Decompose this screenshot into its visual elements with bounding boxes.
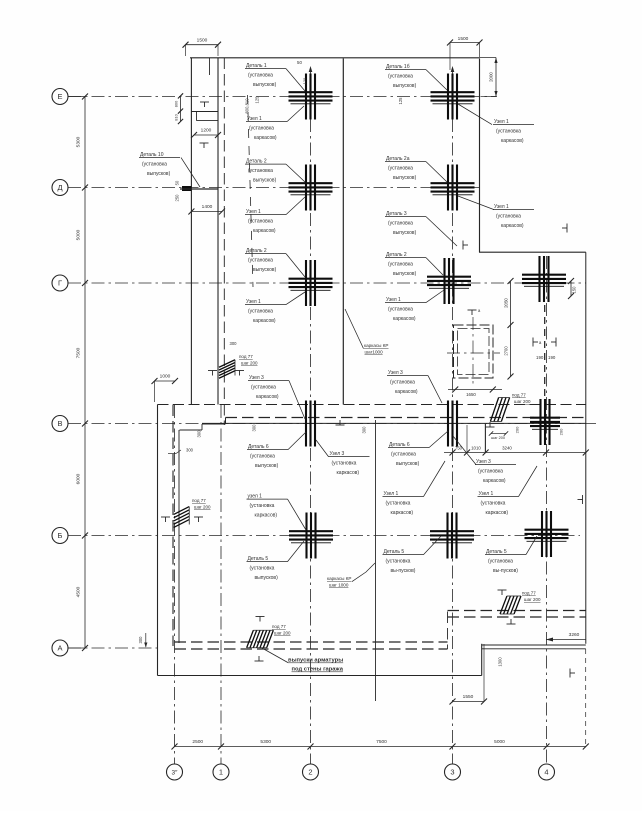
svg-text:1550: 1550 bbox=[463, 694, 474, 700]
svg-text:выпусков): выпусков) bbox=[255, 463, 279, 469]
rebar outlet hatch d bbox=[490, 398, 509, 422]
label Деталь 2 (3-Г) bbox=[385, 252, 443, 277]
svg-text:3: 3 bbox=[450, 768, 454, 777]
wall strip hidden face dashed bbox=[223, 58, 225, 426]
axis circle А bbox=[52, 640, 68, 656]
column rebar cross 3-Б bbox=[430, 513, 474, 559]
column rebar cross 3-В bbox=[448, 401, 457, 447]
column rebar cross 4-Г bbox=[522, 256, 566, 302]
svg-text:под 77: под 77 bbox=[522, 591, 536, 596]
svg-text:3260: 3260 bbox=[569, 632, 580, 638]
svg-text:(установка: (установка bbox=[251, 385, 276, 391]
svg-text:под 77: под 77 bbox=[192, 498, 206, 503]
svg-text:(установка: (установка bbox=[496, 214, 521, 220]
garage bottom right outer wall 2 bbox=[482, 648, 586, 650]
pit centerline horizontal bbox=[447, 352, 500, 354]
dim 1500 top axis3 bbox=[447, 36, 483, 70]
svg-text:каркасов): каркасов) bbox=[253, 228, 276, 234]
svg-text:Деталь 6: Деталь 6 bbox=[389, 442, 410, 448]
svg-text:(установка: (установка bbox=[488, 559, 513, 565]
svg-text:300: 300 bbox=[362, 426, 367, 434]
svg-text:В: В bbox=[57, 419, 62, 428]
label Деталь 2 (2-Д) bbox=[245, 159, 305, 184]
svg-text:800,810: 800,810 bbox=[245, 98, 250, 114]
svg-text:2700: 2700 bbox=[504, 346, 509, 356]
section mark t1 bbox=[200, 102, 209, 107]
section mark t5 bbox=[578, 495, 583, 504]
label Деталь 10 bbox=[139, 152, 200, 187]
label Деталь 3 bbox=[385, 211, 457, 246]
svg-text:каркасов): каркасов) bbox=[256, 394, 279, 400]
svg-text:каркасов): каркасов) bbox=[486, 510, 509, 516]
label каркасы КР шаг 1000 lower bbox=[327, 563, 375, 588]
label Узел 3 (2-В) bbox=[248, 375, 305, 419]
row V inner step line bbox=[180, 429, 203, 431]
svg-text:под 77: под 77 bbox=[512, 393, 526, 398]
svg-text:(установка: (установка bbox=[388, 74, 413, 80]
svg-text:Узел 3: Узел 3 bbox=[388, 370, 403, 376]
label Узел 3 (3-В) above bbox=[387, 370, 442, 403]
svg-text:шаг 200: шаг 200 bbox=[194, 505, 211, 510]
hidden edge line x248 bbox=[248, 95, 254, 287]
label каркасы КР шаг1000 upper bbox=[345, 309, 389, 355]
svg-text:каркасов): каркасов) bbox=[483, 478, 506, 484]
svg-text:1200: 1200 bbox=[201, 128, 212, 134]
svg-text:(установка: (установка bbox=[478, 469, 503, 475]
garage left outer wall bbox=[157, 405, 159, 676]
svg-text:выпусков): выпусков) bbox=[396, 461, 420, 467]
svg-text:Узел 3: Узел 3 bbox=[330, 451, 345, 457]
arrow top of axis 3 bbox=[451, 66, 455, 72]
bottom dimension chain bbox=[172, 739, 589, 750]
row V wall step bbox=[225, 418, 227, 425]
svg-text:Деталь 6: Деталь 6 bbox=[248, 444, 269, 450]
dim 1650 pit bbox=[448, 387, 502, 398]
label Узел 1 (3-Г) bbox=[385, 290, 444, 322]
axis circle 2 bbox=[303, 764, 319, 780]
svg-text:каркасов): каркасов) bbox=[501, 138, 524, 144]
rebar outlet hatch e bbox=[500, 596, 521, 614]
dim 300 near A left bbox=[145, 633, 147, 647]
axis line Е bbox=[68, 96, 497, 98]
svg-text:под 77: под 77 bbox=[272, 624, 286, 629]
svg-text:2: 2 bbox=[308, 768, 312, 777]
svg-text:выпусков): выпусков) bbox=[147, 171, 171, 177]
svg-text:300: 300 bbox=[197, 430, 202, 438]
pit rectangle inner bbox=[458, 329, 490, 375]
svg-text:200: 200 bbox=[559, 428, 564, 435]
svg-text:шаг 1000: шаг 1000 bbox=[329, 583, 349, 588]
axis line 1 bbox=[220, 405, 222, 764]
svg-text:(установка: (установка bbox=[391, 452, 416, 458]
svg-text:Узел 1: Узел 1 bbox=[494, 204, 509, 210]
label Деталь 6 (3-В) bbox=[388, 431, 448, 467]
svg-text:каркасов): каркасов) bbox=[255, 513, 278, 519]
column rebar cross 2-Б bbox=[289, 513, 333, 559]
section mark t20 bbox=[551, 338, 556, 347]
label Узел 3 (3-В) bbox=[453, 436, 516, 484]
svg-text:200: 200 bbox=[515, 426, 520, 433]
column rebar cross 2-Д bbox=[289, 165, 333, 211]
svg-text:3240: 3240 bbox=[502, 446, 512, 451]
rebar outlet hatch a bbox=[219, 360, 235, 378]
svg-text:Узел 1: Узел 1 bbox=[246, 299, 261, 305]
svg-text:(установка: (установка bbox=[248, 168, 273, 174]
label Узел 3 (2-В) right bbox=[316, 440, 370, 476]
svg-text:каркасы КР: каркасы КР bbox=[364, 343, 389, 348]
garage bottom inner dashed wall pair bbox=[175, 641, 448, 643]
svg-text:Деталь 2: Деталь 2 bbox=[386, 252, 407, 258]
section mark t19 bbox=[533, 338, 538, 347]
upper block step wall bbox=[479, 251, 586, 253]
section mark t6 bbox=[570, 669, 575, 678]
dim 3260 right bbox=[546, 632, 586, 642]
column rebar cross 3-Е bbox=[431, 74, 475, 120]
svg-text:Узел 1: Узел 1 bbox=[479, 491, 494, 497]
svg-text:(установка: (установка bbox=[250, 503, 275, 509]
label Деталь 5 (3-Б) bbox=[383, 536, 442, 574]
svg-text:Деталь 5: Деталь 5 bbox=[384, 549, 405, 555]
svg-text:выпусков): выпусков) bbox=[253, 267, 277, 273]
svg-text:(установка: (установка bbox=[332, 461, 357, 467]
axis 4 heavy dashed segment bbox=[544, 305, 546, 400]
label Деталь 6 (2-В) bbox=[247, 432, 306, 469]
svg-text:125: 125 bbox=[302, 77, 307, 84]
svg-text:выпусков): выпусков) bbox=[253, 178, 277, 184]
svg-text:шаг 200: шаг 200 bbox=[514, 399, 531, 404]
wall strip inner stub bbox=[209, 58, 211, 75]
axis line Г bbox=[68, 282, 586, 284]
svg-text:2050: 2050 bbox=[504, 298, 509, 308]
svg-text:вы-пусков): вы-пусков) bbox=[493, 568, 518, 574]
svg-text:А: А bbox=[57, 644, 62, 653]
dim 150 right wall bbox=[568, 278, 577, 299]
column rebar cross 2-В bbox=[306, 401, 315, 447]
svg-text:3″: 3″ bbox=[172, 770, 179, 777]
svg-text:(установка: (установка bbox=[388, 262, 413, 268]
svg-text:(установка: (установка bbox=[386, 501, 411, 507]
label Узел 1 (2-Г) bbox=[245, 292, 305, 324]
upper block right wall upper bbox=[479, 59, 481, 253]
label Узел 1 (3-Б) bbox=[383, 461, 446, 516]
svg-text:каркасов): каркасов) bbox=[395, 389, 418, 395]
garage bottom outer step bbox=[481, 644, 483, 676]
row Д stub line bbox=[180, 188, 218, 190]
svg-text:300: 300 bbox=[138, 636, 143, 644]
axis line Д bbox=[68, 187, 480, 189]
axis line 1' bbox=[174, 405, 176, 764]
axis circle 1 bbox=[213, 764, 229, 780]
svg-text:4: 4 bbox=[544, 768, 548, 777]
column rebar cross 4-Б bbox=[525, 511, 569, 557]
wall strip notch step bbox=[196, 112, 198, 121]
svg-text:выпусков): выпусков) bbox=[393, 175, 417, 181]
svg-text:4500: 4500 bbox=[76, 586, 82, 597]
label Узел 1 (3-Д) right bbox=[458, 196, 534, 229]
svg-text:250: 250 bbox=[175, 194, 180, 202]
svg-text:2000: 2000 bbox=[489, 72, 494, 82]
dim 1550 bottom bbox=[450, 694, 488, 705]
svg-text:выпусков): выпусков) bbox=[255, 575, 279, 581]
svg-text:1300: 1300 bbox=[498, 657, 503, 667]
wall strip top-left outer line bbox=[190, 58, 192, 405]
label Узел 1 (2-Д) bbox=[245, 197, 305, 234]
extension right wall to dim bbox=[585, 649, 587, 747]
axis line 2 bbox=[310, 72, 312, 764]
svg-text:Узел 1: Узел 1 bbox=[247, 116, 262, 122]
svg-text:Деталь 1: Деталь 1 bbox=[246, 63, 267, 69]
svg-text:Д: Д bbox=[57, 183, 62, 192]
axis line А bbox=[68, 647, 160, 649]
svg-text:(установка: (установка bbox=[388, 221, 413, 227]
svg-text:Деталь 2: Деталь 2 bbox=[246, 159, 267, 165]
dim 2050 pit right bbox=[504, 278, 514, 380]
section mark t17 bbox=[336, 420, 345, 425]
svg-text:Деталь 2а: Деталь 2а bbox=[386, 156, 410, 162]
svg-text:каркасов): каркасов) bbox=[337, 470, 360, 476]
label Узел 1 (2-Е) bbox=[246, 106, 304, 141]
svg-text:50: 50 bbox=[297, 60, 302, 65]
section mark t7 bbox=[208, 371, 217, 376]
svg-text:5300: 5300 bbox=[260, 739, 271, 745]
svg-text:5000: 5000 bbox=[76, 229, 82, 240]
svg-text:(установка: (установка bbox=[250, 566, 275, 572]
svg-text:вы-пусков): вы-пусков) bbox=[391, 568, 416, 574]
axis line 4 bbox=[546, 256, 548, 764]
svg-text:1500: 1500 bbox=[197, 38, 208, 44]
axis circle 4 bbox=[539, 764, 555, 780]
axis circle Б bbox=[52, 528, 68, 544]
svg-text:125: 125 bbox=[255, 96, 260, 104]
label Узел 1 (4-Б) bbox=[478, 466, 538, 516]
svg-text:190: 190 bbox=[548, 355, 556, 360]
svg-text:Узел 3: Узел 3 bbox=[249, 375, 264, 381]
label Узел 1 (3-Е) right bbox=[458, 104, 534, 144]
extension wall corner to dim bbox=[484, 424, 486, 452]
garage bottom outer wall bbox=[158, 675, 482, 677]
bottom right dashed wall 2 bbox=[448, 616, 586, 618]
svg-text:Узел 1: Узел 1 bbox=[494, 119, 509, 125]
section mark t15 bbox=[498, 590, 507, 595]
dim 2000 right of axis3 top bbox=[480, 58, 498, 97]
svg-text:7500: 7500 bbox=[76, 347, 82, 358]
svg-text:1650: 1650 bbox=[466, 392, 476, 397]
axis circle Г bbox=[52, 275, 68, 291]
svg-text:(установка: (установка bbox=[250, 454, 275, 460]
svg-text:шаг 200: шаг 200 bbox=[491, 436, 505, 440]
column rebar cross 3-Г bbox=[427, 258, 471, 304]
right outer wall bbox=[585, 252, 587, 644]
svg-text:5300: 5300 bbox=[76, 136, 82, 147]
svg-text:Деталь 3: Деталь 3 bbox=[386, 211, 407, 217]
column rebar cross 2-Г bbox=[289, 260, 333, 306]
axis circle Е bbox=[52, 89, 68, 105]
section mark t11 bbox=[255, 656, 264, 661]
svg-text:1000: 1000 bbox=[160, 374, 171, 380]
svg-text:выпусков): выпусков) bbox=[393, 83, 417, 89]
svg-text:шаг 200: шаг 200 bbox=[524, 597, 541, 602]
dim chain 750 1010 3240 bbox=[444, 424, 589, 456]
svg-text:300: 300 bbox=[186, 448, 194, 453]
svg-text:Деталь 2: Деталь 2 bbox=[246, 248, 267, 254]
axis line Б bbox=[68, 535, 580, 537]
svg-text:(установка: (установка bbox=[249, 126, 274, 132]
svg-text:под 77: под 77 bbox=[239, 354, 253, 359]
svg-text:(установка: (установка bbox=[386, 559, 411, 565]
section mark t18 bbox=[468, 310, 477, 315]
section mark t2 bbox=[200, 143, 209, 148]
top wall continuous bbox=[190, 57, 480, 59]
label Деталь 1б (3-Е) bbox=[385, 64, 447, 90]
section mark t12 bbox=[256, 617, 265, 622]
row V hidden wall line bbox=[158, 404, 587, 406]
svg-text:7500: 7500 bbox=[376, 739, 387, 745]
svg-text:Б: Б bbox=[58, 531, 63, 540]
upper block left wall bbox=[342, 59, 344, 405]
dim 1000 row V left bbox=[152, 374, 179, 403]
column rebar cross 3-Д bbox=[431, 165, 475, 211]
section mark t14 bbox=[486, 422, 495, 427]
svg-text:(установка: (установка bbox=[388, 166, 413, 172]
rebar outlet hatch c bbox=[247, 630, 274, 648]
svg-text:Деталь 5: Деталь 5 bbox=[486, 549, 507, 555]
section mark t10 bbox=[194, 517, 203, 522]
rebar outlet hatch b bbox=[174, 507, 190, 528]
axis line В bbox=[68, 423, 596, 425]
pit rectangle outer bbox=[454, 325, 494, 378]
section mark t3 bbox=[463, 241, 468, 250]
svg-text:300: 300 bbox=[252, 424, 257, 432]
label выпуски арматуры под стены гаража bbox=[262, 648, 344, 673]
internal wall line bbox=[375, 420, 377, 701]
dim 800 810 bracket left of strip bbox=[180, 96, 182, 122]
svg-text:1: 1 bbox=[219, 768, 223, 777]
svg-text:300: 300 bbox=[230, 341, 238, 346]
left dimension chain bbox=[68, 94, 88, 652]
row V dashed wall line bbox=[226, 417, 587, 419]
svg-text:Деталь 1б: Деталь 1б bbox=[386, 64, 410, 70]
bottom wall step dashed bbox=[447, 612, 449, 650]
svg-text:каркасов): каркасов) bbox=[501, 223, 524, 229]
svg-text:шаг 200: шаг 200 bbox=[241, 361, 258, 366]
svg-text:Узел 3: Узел 3 bbox=[476, 459, 491, 465]
svg-text:(установка: (установка bbox=[248, 73, 273, 79]
section mark t8 bbox=[235, 371, 244, 376]
axis circle 3" bbox=[167, 764, 183, 780]
column rebar cross 4-В bbox=[530, 399, 560, 445]
row Д wall stub black bbox=[182, 186, 192, 191]
label узел 1 (2-Б) bbox=[247, 494, 307, 531]
svg-text:узел 1: узел 1 bbox=[248, 494, 263, 500]
svg-text:под стены гаража: под стены гаража bbox=[292, 667, 344, 673]
axis circle Д bbox=[52, 180, 68, 196]
svg-text:(установка: (установка bbox=[248, 258, 273, 264]
section mark t4 bbox=[562, 224, 567, 233]
label Деталь 5 (4-Б) bbox=[485, 536, 537, 574]
svg-text:Деталь 10: Деталь 10 bbox=[140, 152, 164, 158]
svg-text:каркасов): каркасов) bbox=[391, 510, 414, 516]
label Деталь 2 (2-Г) bbox=[245, 248, 305, 277]
svg-text:(установка: (установка bbox=[248, 309, 273, 315]
row V inner step vert bbox=[201, 424, 203, 430]
section mark t9 bbox=[161, 517, 170, 522]
section mark t16 bbox=[507, 619, 516, 624]
svg-text:1500: 1500 bbox=[458, 36, 469, 42]
svg-text:шаг1000: шаг1000 bbox=[365, 350, 384, 355]
svg-text:(установка: (установка bbox=[481, 501, 506, 507]
svg-text:Узел 1: Узел 1 bbox=[386, 297, 401, 303]
svg-text:150: 150 bbox=[572, 286, 577, 294]
svg-text:(установка: (установка bbox=[248, 219, 273, 225]
svg-text:выпусков): выпусков) bbox=[253, 82, 277, 88]
svg-text:каркасов): каркасов) bbox=[253, 318, 276, 324]
wall strip notch line bbox=[191, 111, 218, 113]
label Деталь 2а (3-Д) bbox=[385, 156, 447, 182]
svg-text:1400: 1400 bbox=[202, 204, 213, 210]
svg-text:Узел 1: Узел 1 bbox=[384, 491, 399, 497]
svg-text:каркасов): каркасов) bbox=[393, 316, 416, 322]
svg-text:каркасов): каркасов) bbox=[254, 135, 277, 141]
svg-text:800: 800 bbox=[174, 100, 179, 107]
pit centerline vertical bbox=[472, 317, 474, 385]
row V solid wall line long bbox=[202, 422, 586, 424]
svg-text:шаг 200: шаг 200 bbox=[274, 631, 291, 636]
column rebar cross 2-Е bbox=[289, 74, 333, 120]
wall strip notch line 2 bbox=[197, 120, 219, 122]
garage left inner wall solid bbox=[178, 430, 180, 643]
dim 1200 bbox=[191, 128, 221, 139]
label Деталь 5 (2-Б) bbox=[247, 541, 305, 581]
svg-text:1010: 1010 bbox=[471, 446, 481, 451]
svg-text:Г: Г bbox=[58, 279, 62, 288]
svg-text:2500: 2500 bbox=[192, 739, 203, 745]
svg-text:50: 50 bbox=[175, 180, 180, 185]
svg-text:(установка: (установка bbox=[142, 162, 167, 168]
svg-text:(установка: (установка bbox=[390, 380, 415, 386]
garage bottom right outer wall bbox=[482, 644, 586, 646]
dim 1500 top-left bbox=[183, 38, 222, 57]
arrow top of axis 2 bbox=[309, 66, 313, 72]
label Деталь 1 (2-Е) bbox=[245, 63, 305, 91]
svg-text:5000: 5000 bbox=[494, 739, 505, 745]
svg-text:125: 125 bbox=[398, 97, 403, 105]
small dim under hatch d bbox=[491, 433, 506, 435]
svg-text:Деталь 5: Деталь 5 bbox=[248, 556, 269, 562]
svg-text:(установка: (установка bbox=[496, 129, 521, 135]
axis line 3 bbox=[452, 72, 454, 764]
svg-text:6000: 6000 bbox=[76, 473, 82, 484]
svg-text:выпусков): выпусков) bbox=[393, 230, 417, 236]
svg-text:810: 810 bbox=[174, 113, 179, 120]
svg-text:каркасы КР: каркасы КР bbox=[327, 576, 352, 581]
svg-text:Е: Е bbox=[57, 92, 62, 101]
row V solid wall stub bbox=[202, 423, 226, 425]
svg-text:Узел 1: Узел 1 bbox=[246, 209, 261, 215]
svg-text:выпуски арматуры: выпуски арматуры bbox=[288, 658, 343, 664]
dim 1400 bbox=[188, 204, 225, 215]
svg-text:190: 190 bbox=[536, 355, 544, 360]
axis circle 3 bbox=[445, 764, 461, 780]
extension step bottom bbox=[483, 644, 485, 702]
bottom right dashed wall 1 bbox=[448, 610, 586, 612]
wall strip top-left inner line bbox=[217, 58, 219, 405]
axis circle В bbox=[52, 416, 68, 432]
garage left inner wall dashed bbox=[172, 405, 174, 647]
svg-text:выпусков): выпусков) bbox=[393, 271, 417, 277]
svg-text:(установка: (установка bbox=[388, 307, 413, 313]
